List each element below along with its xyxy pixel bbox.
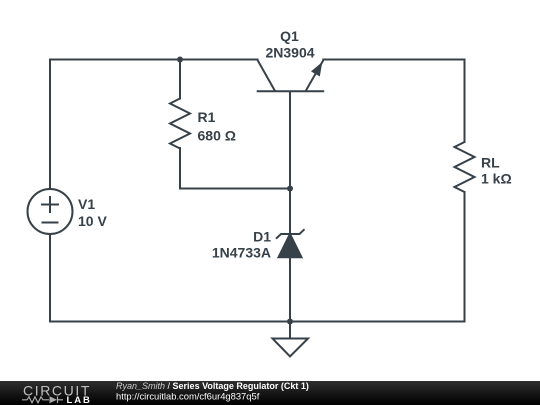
svg-text:1N4733A: 1N4733A	[212, 244, 271, 260]
svg-text:D1: D1	[253, 229, 271, 245]
svg-text:2N3904: 2N3904	[265, 45, 314, 61]
wire bottom rail	[50, 321, 465, 323]
wire right-bottom: RL bottom to bottom rail	[464, 192, 466, 322]
wire left-bottom: V1 bottom to bottom rail	[49, 234, 51, 322]
svg-text:R1: R1	[198, 109, 216, 125]
wire node B to D1 cathode	[289, 189, 291, 235]
svg-text:Ryan_Smith / Series Voltage Re: Ryan_Smith / Series Voltage Regulator (C…	[116, 381, 309, 391]
transistor Q1	[257, 60, 325, 91]
voltage source V1	[28, 189, 73, 234]
wire D1 anode to bottom rail	[289, 258, 291, 322]
ground	[273, 322, 309, 357]
zener diode D1	[276, 229, 305, 257]
transistor Q1 emitter arrow	[311, 62, 322, 77]
wire R1 bottom lead to node B	[180, 148, 290, 189]
node junction dot A	[177, 57, 183, 63]
logo resistor-diode squiggle	[22, 397, 63, 404]
svg-text:V1: V1	[78, 196, 95, 212]
svg-text:Q1: Q1	[280, 28, 299, 44]
node junction dot C	[287, 319, 293, 325]
resistor R1	[170, 99, 190, 149]
svg-text:680 Ω: 680 Ω	[198, 128, 236, 144]
resistor RL	[455, 142, 475, 192]
svg-text:http://circuitlab.com/cf6ur4g8: http://circuitlab.com/cf6ur4g837q5f	[116, 391, 260, 402]
svg-text:10 V: 10 V	[78, 213, 107, 229]
wire R1 top lead	[179, 60, 181, 99]
wire top-right: Q1 emitter to RL top	[323, 60, 464, 143]
node junction dot B	[287, 186, 293, 192]
svg-text:RL: RL	[481, 155, 500, 171]
wire top-middle: junction to Q1 collector	[180, 59, 258, 61]
logo diode triangle	[50, 396, 58, 403]
svg-text:1 kΩ: 1 kΩ	[481, 171, 512, 187]
wire Q1 base to node B	[289, 92, 291, 189]
wire top-left: V1 top to R1 junction	[50, 60, 180, 190]
svg-text:LAB: LAB	[67, 395, 92, 405]
